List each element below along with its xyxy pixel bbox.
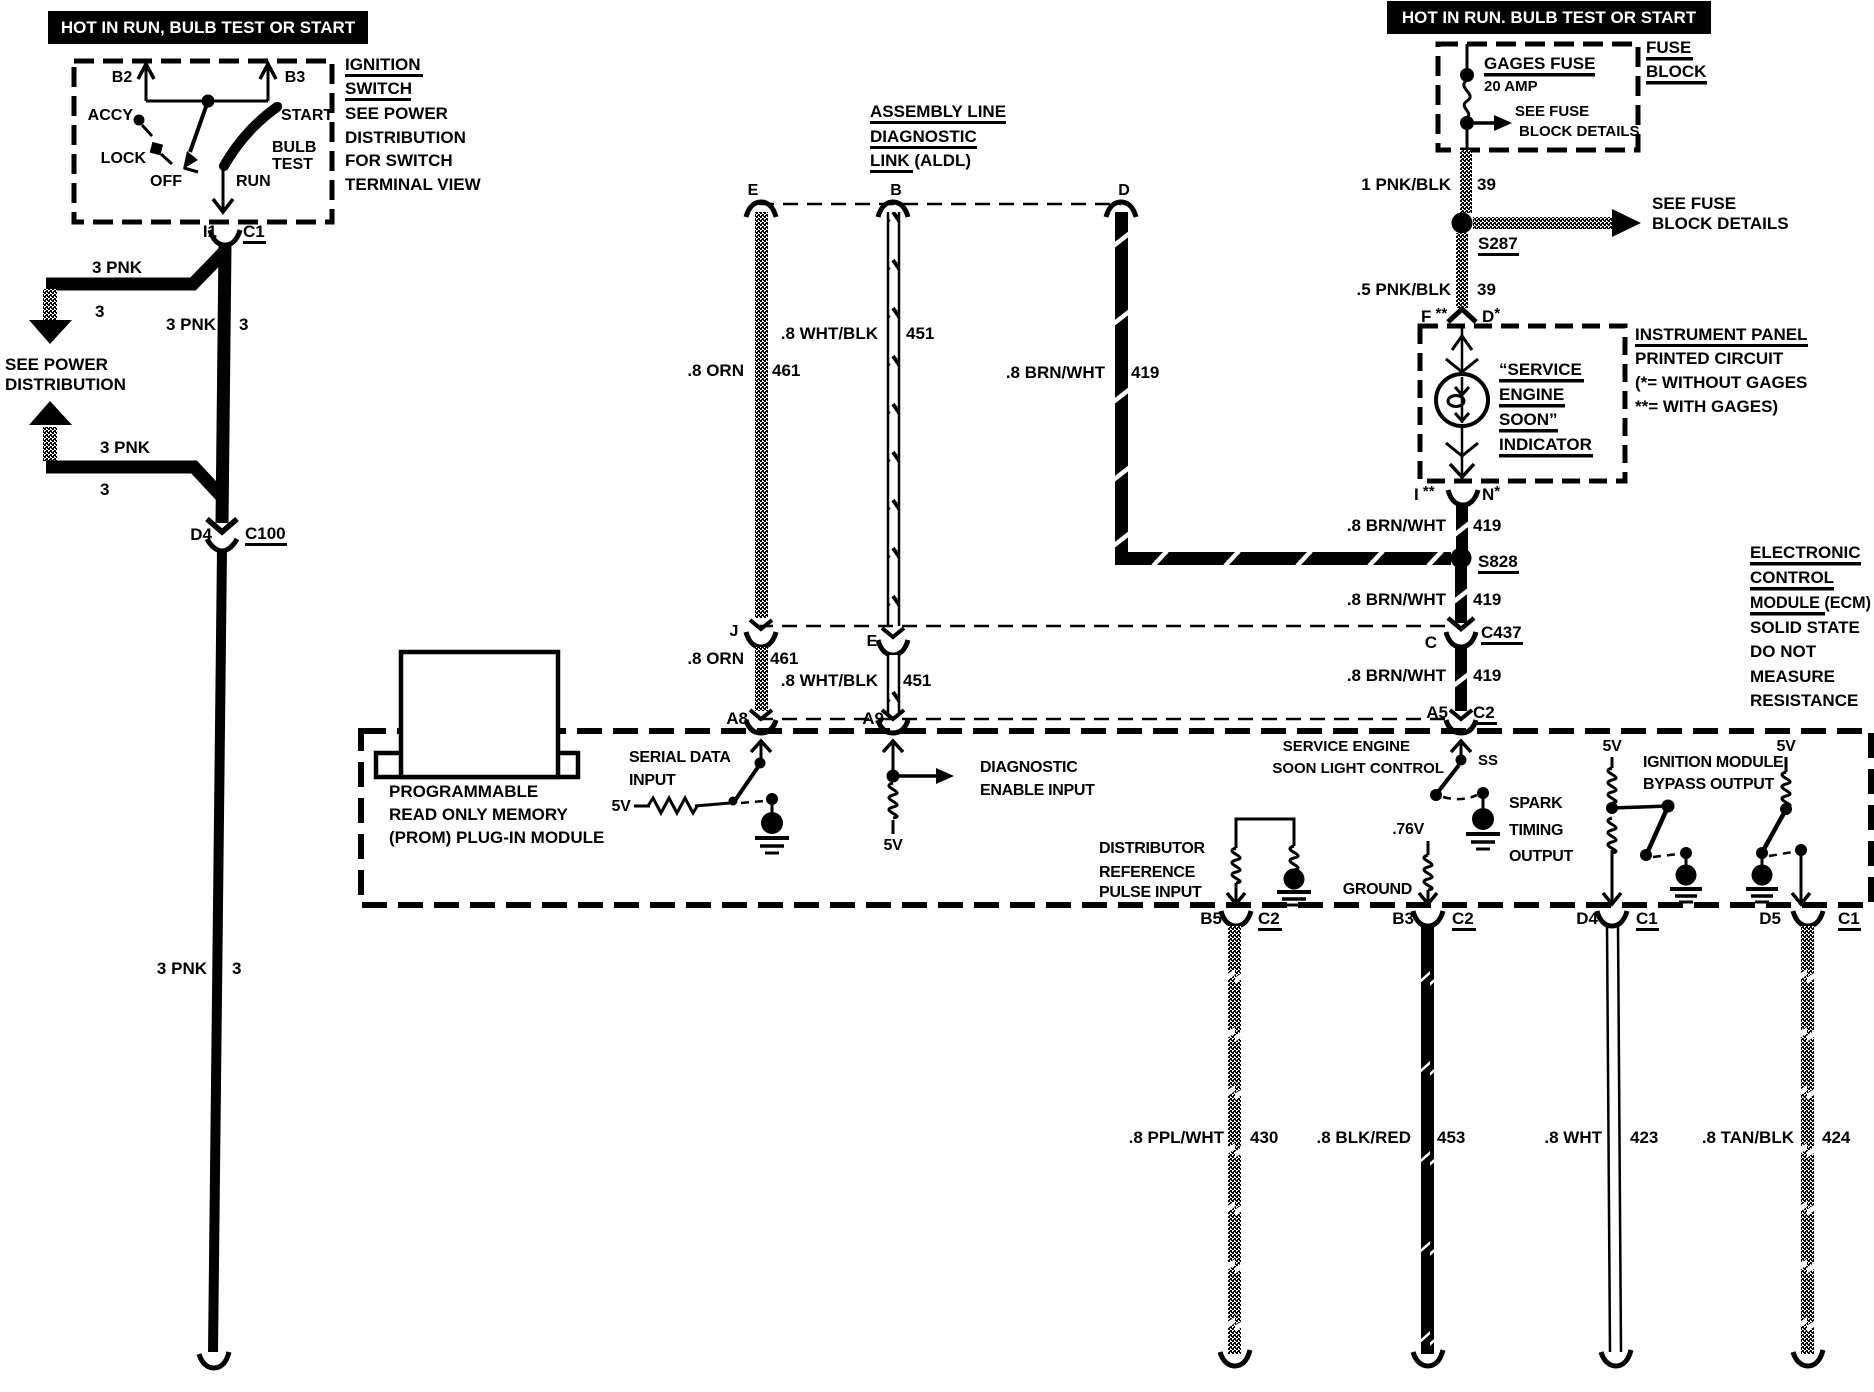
svg-text:B: B [890, 182, 902, 199]
svg-text:461: 461 [772, 361, 800, 380]
connector I/N instrument panel bottom [1414, 483, 1500, 505]
wire ALDL top dashed link [759, 203, 1121, 206]
svg-text:(*= WITHOUT GAGES: (*= WITHOUT GAGES [1635, 373, 1807, 392]
svg-text:RESISTANCE: RESISTANCE [1750, 691, 1858, 710]
svg-text:FOR SWITCH: FOR SWITCH [345, 151, 453, 170]
svg-text:BULB: BULB [272, 139, 316, 156]
wire dashed A8-A5 link line [758, 718, 1445, 721]
svg-text:REFERENCE: REFERENCE [1099, 864, 1196, 881]
ignition switch box [74, 61, 332, 222]
svg-text:5V: 5V [1603, 738, 1623, 755]
wire B .8 WHT/BLK 451 upper [888, 212, 899, 626]
svg-text:BYPASS OUTPUT: BYPASS OUTPUT [1643, 776, 1774, 793]
svg-text:OFF: OFF [150, 173, 182, 190]
wire B .8 WHT/BLK 451 lower [888, 655, 899, 713]
svg-text:.8 BRN/WHT: .8 BRN/WHT [1006, 363, 1106, 382]
splice S828 [1451, 548, 1472, 569]
wire 1 PNK/BLK 39 [1460, 150, 1472, 213]
svg-text:5V: 5V [884, 837, 904, 854]
svg-text:20 AMP: 20 AMP [1484, 78, 1538, 95]
switch wiper to OFF [183, 101, 208, 172]
wire bus B2-B3 [146, 100, 268, 103]
arrow to fuse block details [1473, 194, 1789, 237]
svg-text:C437: C437 [1481, 623, 1522, 642]
wire branch upper 3 PNK [46, 252, 224, 284]
wire end hook B5 [1220, 1350, 1250, 1366]
svg-text:C2: C2 [1258, 909, 1280, 928]
svg-text:D: D [1118, 182, 1130, 199]
diagnostic enable input circuit [883, 741, 1095, 854]
svg-text:(PROM) PLUG-IN MODULE: (PROM) PLUG-IN MODULE [389, 828, 604, 847]
svg-text:INPUT: INPUT [629, 772, 676, 789]
terminal B3 arrow [260, 64, 305, 101]
svg-text:3 PNK: 3 PNK [92, 258, 143, 277]
svg-text:.8 BRN/WHT: .8 BRN/WHT [1347, 516, 1447, 535]
svg-text:.8 BRN/WHT: .8 BRN/WHT [1347, 590, 1447, 609]
svg-text:SERVICE ENGINE: SERVICE ENGINE [1283, 738, 1410, 755]
svg-text:ASSEMBLY LINE: ASSEMBLY LINE [870, 102, 1006, 121]
svg-text:C2: C2 [1473, 703, 1495, 722]
svg-text:GAGES FUSE: GAGES FUSE [1484, 54, 1595, 73]
splice S287 [1452, 213, 1473, 234]
svg-text:451: 451 [903, 671, 931, 690]
svg-text:453: 453 [1437, 1128, 1465, 1147]
gages fuse [1460, 44, 1595, 152]
svg-text:SEE FUSE: SEE FUSE [1652, 194, 1736, 213]
wire end hook D5 [1793, 1350, 1823, 1366]
svg-text:1 PNK/BLK: 1 PNK/BLK [1361, 175, 1451, 194]
svg-text:39: 39 [1477, 280, 1496, 299]
svg-text:.5 PNK/BLK: .5 PNK/BLK [1357, 280, 1452, 299]
svg-text:419: 419 [1473, 590, 1501, 609]
svg-text:423: 423 [1630, 1128, 1658, 1147]
arrow see fuse block details (inside box) [1472, 103, 1640, 140]
svg-text:424: 424 [1822, 1128, 1851, 1147]
svg-text:SEE FUSE: SEE FUSE [1515, 103, 1589, 120]
svg-text:DISTRIBUTION: DISTRIBUTION [345, 128, 466, 147]
svg-text:3: 3 [95, 302, 104, 321]
svg-text:419: 419 [1473, 516, 1501, 535]
wire E .8 ORN 461 upper [755, 212, 768, 618]
ignition module bypass output circuit D4 [1603, 738, 1785, 904]
wire branch lower 3 PNK [29, 401, 72, 425]
svg-text:TEST: TEST [272, 156, 313, 173]
svg-text:5V: 5V [1777, 738, 1797, 755]
svg-text:DIAGNOSTIC: DIAGNOSTIC [870, 127, 977, 146]
svg-text:419: 419 [1473, 666, 1501, 685]
wire E .8 ORN 461 lower [755, 647, 768, 711]
svg-text:BLOCK DETAILS: BLOCK DETAILS [1652, 214, 1789, 233]
svg-text:C1: C1 [243, 222, 265, 241]
svg-text:SWITCH: SWITCH [345, 79, 412, 98]
svg-text:SEE POWER: SEE POWER [5, 355, 108, 374]
svg-text:39: 39 [1477, 175, 1496, 194]
svg-text:BLOCK: BLOCK [1646, 62, 1707, 81]
svg-text:3: 3 [232, 959, 241, 978]
svg-text:ELECTRONIC: ELECTRONIC [1750, 543, 1861, 562]
connector A8 [726, 709, 776, 733]
label ELECTRONIC CONTROL MODULE [1750, 543, 1871, 710]
ignition module bypass output circuit D5 [1746, 738, 1810, 904]
svg-text:LINK (ALDL): LINK (ALDL) [870, 151, 971, 170]
connector B3 C2 [1392, 909, 1476, 931]
svg-text:PRINTED CIRCUIT: PRINTED CIRCUIT [1635, 349, 1784, 368]
svg-text:C2: C2 [1452, 909, 1474, 928]
ignition switch notes text [345, 55, 482, 194]
svg-text:DIAGNOSTIC: DIAGNOSTIC [980, 759, 1078, 776]
svg-text:HOT IN RUN, BULB TEST OR START: HOT IN RUN, BULB TEST OR START [61, 18, 356, 37]
PROM module [376, 652, 578, 777]
connector C437 [1425, 618, 1523, 652]
svg-text:SPARK: SPARK [1509, 795, 1563, 812]
svg-text:SEE POWER: SEE POWER [345, 104, 448, 123]
distributor reference pulse input circuit [1099, 819, 1311, 905]
svg-text:451: 451 [906, 324, 934, 343]
wire .8 BRN/WHT 419 to S828 [1453, 505, 1471, 553]
svg-text:TERMINAL VIEW: TERMINAL VIEW [345, 175, 482, 194]
svg-text:B2: B2 [112, 69, 133, 86]
contact ACCY [88, 107, 152, 136]
wire S828 horizontal striped [1115, 551, 1451, 566]
svg-text:SOLID STATE: SOLID STATE [1750, 618, 1860, 637]
connector A9 [862, 709, 908, 733]
svg-text:SS: SS [1478, 752, 1498, 769]
svg-text:3 PNK: 3 PNK [157, 959, 208, 978]
svg-text:C1: C1 [1636, 909, 1658, 928]
svg-text:DO NOT: DO NOT [1750, 642, 1817, 661]
svg-text:.8 WHT/BLK: .8 WHT/BLK [781, 324, 879, 343]
svg-text:A8: A8 [726, 709, 748, 728]
fuse block box [1438, 44, 1638, 150]
terminal B2 arrow [112, 64, 154, 101]
ECM box dashed [361, 731, 1871, 905]
wire .8 BRN/WHT 419 to A5 [1452, 647, 1470, 711]
wire end hook bottom left [199, 1352, 229, 1368]
wire .8 WHT 423 [1607, 926, 1621, 1352]
svg-text:TIMING: TIMING [1509, 822, 1563, 839]
connector A5 C2 [1426, 703, 1497, 733]
svg-text:.8 WHT: .8 WHT [1544, 1128, 1602, 1147]
svg-text:OUTPUT: OUTPUT [1509, 848, 1574, 865]
instrument panel box [1420, 326, 1625, 481]
connector D4 C1 [1576, 909, 1659, 931]
svg-text:IGNITION: IGNITION [345, 55, 421, 74]
svg-text:430: 430 [1250, 1128, 1278, 1147]
svg-text:READ ONLY MEMORY: READ ONLY MEMORY [389, 805, 569, 824]
svg-text:“SERVICE: “SERVICE [1499, 360, 1582, 379]
bulb test arc [224, 107, 277, 166]
svg-text:GROUND: GROUND [1343, 881, 1412, 898]
connector D4 C100 [190, 519, 287, 551]
svg-text:ACCY: ACCY [88, 107, 134, 124]
svg-text:A5: A5 [1426, 703, 1448, 722]
svg-text:ENABLE INPUT: ENABLE INPUT [980, 782, 1095, 799]
title ASSEMBLY LINE DIAGNOSTIC LINK (ALDL) [870, 102, 1006, 173]
svg-text:MEASURE: MEASURE [1750, 667, 1835, 686]
svg-text:S828: S828 [1478, 552, 1518, 571]
label PROM [389, 782, 604, 847]
svg-text:MODULE (ECM): MODULE (ECM) [1750, 593, 1871, 612]
wire end hook D4 [1601, 1350, 1631, 1366]
svg-text:HOT IN RUN. BULB TEST OR START: HOT IN RUN. BULB TEST OR START [1402, 8, 1697, 27]
serial data input circuit [612, 741, 789, 853]
svg-text:PULSE INPUT: PULSE INPUT [1099, 884, 1202, 901]
banner HOT IN RUN, BULB TEST OR START (right) [1387, 1, 1711, 34]
svg-text:3 PNK: 3 PNK [100, 438, 151, 457]
node switch common [202, 95, 215, 108]
svg-text:3: 3 [100, 480, 109, 499]
svg-text:.8 BRN/WHT: .8 BRN/WHT [1347, 666, 1447, 685]
service engine soon light control circuit [1272, 738, 1573, 865]
svg-text:.8 ORN: .8 ORN [687, 361, 744, 380]
connector J [730, 620, 776, 647]
svg-text:E: E [748, 182, 759, 199]
svg-text:SOON”: SOON” [1499, 410, 1558, 429]
svg-text:ENGINE: ENGINE [1499, 385, 1564, 404]
svg-text:LOCK: LOCK [101, 150, 147, 167]
banner HOT IN RUN, BULB TEST OR START (left) [48, 11, 368, 44]
svg-text:START: START [281, 107, 333, 124]
svg-text:SOON LIGHT CONTROL: SOON LIGHT CONTROL [1272, 760, 1444, 777]
svg-text:C1: C1 [1838, 909, 1860, 928]
svg-text:INDICATOR: INDICATOR [1499, 435, 1592, 454]
svg-text:5V: 5V [612, 798, 632, 815]
wire .8 TAN/BLK 424 [1801, 926, 1814, 1354]
svg-text:RUN: RUN [236, 173, 271, 190]
svg-text:**= WITH GAGES): **= WITH GAGES) [1635, 397, 1778, 416]
wire .8 BRN/WHT 419 to C437 [1452, 567, 1470, 623]
svg-text:3 PNK: 3 PNK [166, 315, 217, 334]
ground .76V circuit [1343, 821, 1437, 904]
svg-text:.8 WHT/BLK: .8 WHT/BLK [781, 671, 879, 690]
svg-text:S287: S287 [1478, 234, 1518, 253]
svg-text:B3: B3 [285, 69, 306, 86]
svg-text:.8 TAN/BLK: .8 TAN/BLK [1702, 1128, 1795, 1147]
connector F/D instrument panel [1421, 305, 1500, 326]
svg-text:PROGRAMMABLE: PROGRAMMABLE [389, 782, 538, 801]
svg-text:.76V: .76V [1392, 821, 1424, 838]
svg-text:DISTRIBUTION: DISTRIBUTION [5, 375, 126, 394]
svg-text:3: 3 [239, 315, 248, 334]
contact LOCK [101, 142, 172, 167]
label INSTRUMENT PANEL PRINTED CIRCUIT [1635, 325, 1808, 416]
svg-text:.8 BLK/RED: .8 BLK/RED [1317, 1128, 1411, 1147]
label SERVICE ENGINE SOON INDICATOR [1499, 360, 1593, 458]
wire .8 PPL/WHT 430 [1228, 926, 1241, 1354]
svg-text:.8 PPL/WHT: .8 PPL/WHT [1129, 1128, 1225, 1147]
wire 3 PNK main vertical [222, 245, 225, 523]
svg-text:FUSE: FUSE [1646, 38, 1691, 57]
svg-text:CONTROL: CONTROL [1750, 568, 1834, 587]
svg-text:INSTRUMENT PANEL: INSTRUMENT PANEL [1635, 325, 1808, 344]
label FUSE BLOCK [1646, 38, 1707, 85]
svg-text:C100: C100 [245, 524, 286, 543]
svg-text:IGNITION MODULE: IGNITION MODULE [1643, 754, 1784, 771]
svg-text:.8 ORN: .8 ORN [687, 649, 744, 668]
wire end hook B3 [1413, 1350, 1443, 1366]
wire .8 BLK/RED 453 [1421, 926, 1434, 1354]
wire D .8 BRN/WHT 419 vertical [1112, 212, 1130, 565]
connector B5 C2 [1200, 909, 1282, 931]
connector I1 C1 [203, 222, 266, 245]
svg-text:461: 461 [770, 649, 798, 668]
connector D5 C1 [1759, 909, 1861, 931]
wire dashed C437 link line [758, 625, 1445, 628]
svg-text:419: 419 [1131, 363, 1159, 382]
svg-text:SERIAL DATA: SERIAL DATA [629, 749, 731, 766]
svg-text:C: C [1425, 633, 1437, 652]
wire .5 PNK/BLK 39 [1456, 233, 1468, 308]
connector E lower [867, 628, 908, 655]
service engine soon indicator bulb [1436, 328, 1488, 479]
svg-text:J: J [730, 623, 739, 640]
wire RUN to connector [213, 166, 233, 212]
svg-text:BLOCK DETAILS: BLOCK DETAILS [1519, 123, 1640, 140]
svg-text:DISTRIBUTOR: DISTRIBUTOR [1099, 840, 1205, 857]
svg-text:D5: D5 [1759, 909, 1781, 928]
